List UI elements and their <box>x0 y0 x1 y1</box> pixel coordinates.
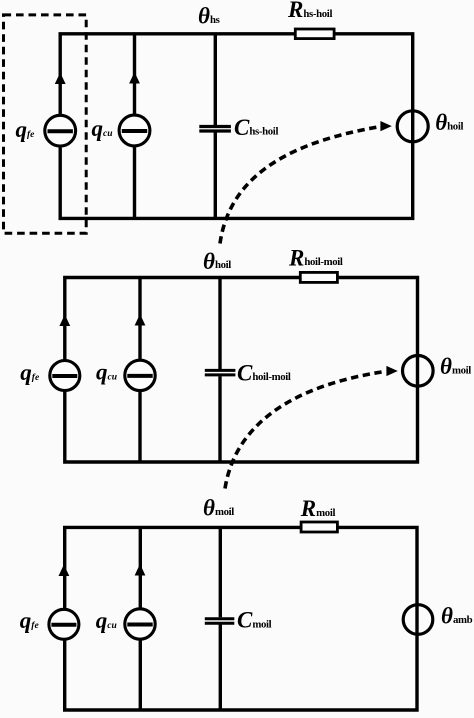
wire q_cu branch section 1 <box>133 34 136 219</box>
current source q_fe section 1 <box>45 73 76 147</box>
current source q_cu section 2 <box>125 314 155 391</box>
wire q_cu branch section 2 <box>138 278 141 463</box>
wire capacitor branch upper section 1 <box>214 34 217 126</box>
temperature source theta_hoil section 1 <box>397 111 428 142</box>
resistor R_moil <box>301 522 337 532</box>
temperature source theta_amb section 3 <box>403 605 433 635</box>
wire outer loop section 1 <box>60 34 413 219</box>
wire capacitor branch lower section 3 <box>219 625 222 711</box>
resistor R_hoil-moil <box>300 272 337 282</box>
current source q_cu section 1 <box>119 72 150 146</box>
wire outer loop section 2 <box>65 278 418 463</box>
dashed box around q_fe source (iron-loss boundary) <box>4 15 87 233</box>
current source q_fe section 3 <box>49 565 79 640</box>
wire capacitor branch lower section 2 <box>218 376 221 462</box>
capacitor C_hs-hoil plates <box>199 127 231 132</box>
wire q_cu branch section 3 <box>139 527 142 710</box>
temperature source theta_moil section 2 <box>403 356 434 387</box>
wire capacitor branch lower section 1 <box>214 133 217 219</box>
wire outer loop section 3 <box>65 527 417 710</box>
resistor R_hs-hoil <box>295 29 334 39</box>
dashed feedback arrow into theta_hoil source <box>220 121 392 244</box>
current source q_fe section 2 <box>50 315 80 391</box>
wire capacitor branch upper section 3 <box>219 527 222 617</box>
dashed feedback arrow into theta_moil source <box>225 366 398 489</box>
capacitor C_hoil-moil plates <box>205 370 236 375</box>
current source q_cu section 3 <box>125 564 155 639</box>
capacitor C_moil plates <box>205 619 235 623</box>
wire capacitor branch upper section 2 <box>218 278 221 370</box>
